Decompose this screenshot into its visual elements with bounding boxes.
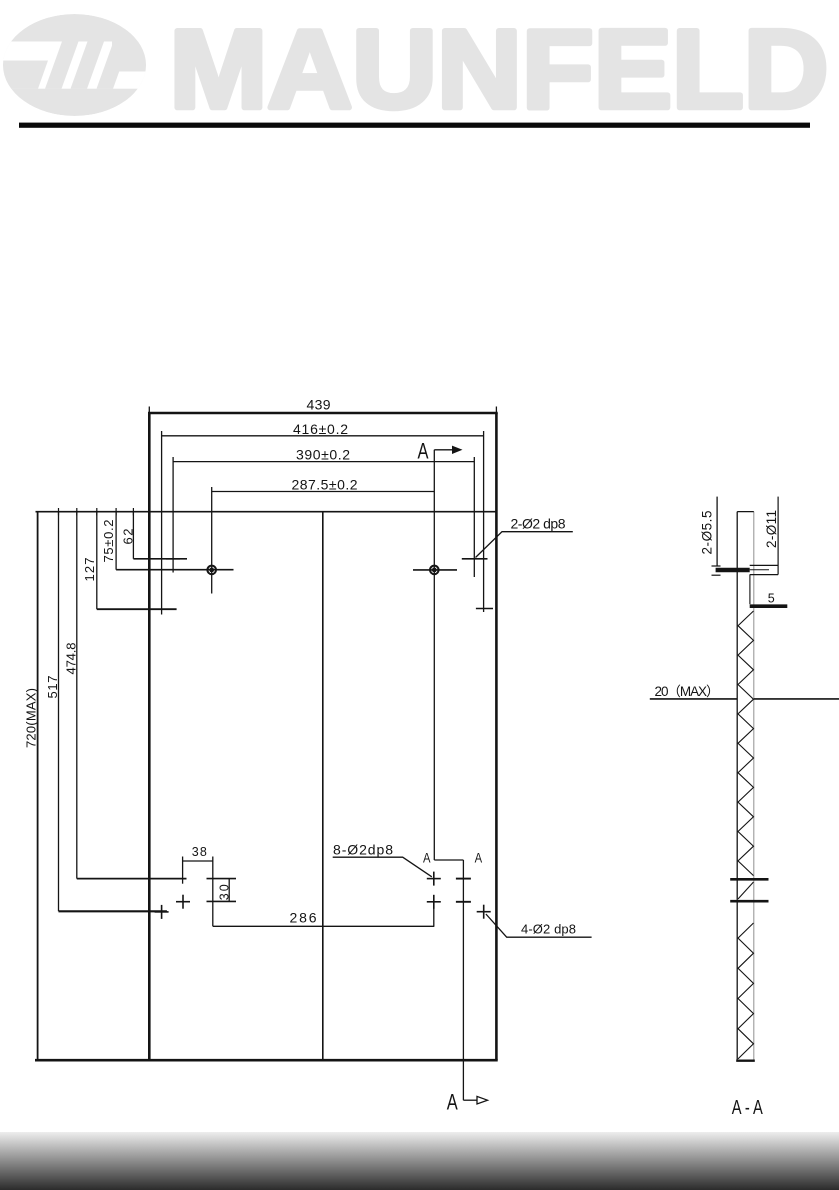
286 right connector [433,902,435,927]
svg-text:439: 439 [307,397,331,413]
screw shaft line [749,575,751,605]
hole cross right row3 [476,608,493,610]
dimension 439 [149,407,496,414]
leader 8-d2dp8 [333,857,432,877]
panel outline [35,413,498,1060]
hole bar row2 [730,900,768,903]
dimension 416 [162,431,484,615]
flange ticks [712,566,721,575]
svg-text:A: A [447,1090,458,1115]
svg-text:A: A [423,849,431,865]
svg-text:2-Ø11: 2-Ø11 [764,510,779,548]
section ticks right column [456,879,471,902]
svg-text:416±0.2: 416±0.2 [293,421,348,437]
dimension 62 line [133,512,187,559]
svg-text:287.5±0.2: 287.5±0.2 [292,476,358,492]
hole circle left [207,566,216,575]
dimension 287.5 [212,487,435,594]
logo ellipse [0,14,152,116]
hatch zigzag lower [738,923,754,1059]
ticks on countertop junctions [59,508,134,515]
strip left edge [736,512,738,1061]
hole bar row1 [730,878,768,881]
svg-text:38: 38 [192,845,207,859]
hole cross (161.6,911.9) [155,905,169,919]
strip top edge [737,511,754,513]
dimension 127 line [97,512,177,610]
hole cross right row1 [462,558,488,560]
dimension 474.8 line [77,512,187,879]
svg-text:474.8: 474.8 [64,643,79,675]
bar dim 5 [750,604,788,608]
svg-text:20（MAX）: 20（MAX） [655,684,720,699]
dimension 390 [173,457,474,577]
hole cross (433.8,901.8) [427,895,441,909]
svg-text:2-Ø5.5: 2-Ø5.5 [700,511,715,555]
leader 2-d11 [777,497,779,575]
svg-text:8-Ø2dp8: 8-Ø2dp8 [333,841,393,857]
front view texts [23,397,576,1115]
hole cross left row1 [166,558,180,560]
section view texts [655,510,780,1119]
svg-text:62: 62 [120,529,135,545]
strip right edge [753,512,755,1061]
section line lower [462,860,464,1100]
dimension 720(MAX) line [37,512,39,1060]
dimension 286 [213,925,434,927]
svg-text:517: 517 [45,676,60,699]
dimension 517 line [59,512,167,912]
leader 4-d2dp8 [486,914,592,937]
dimension 75 line [116,512,233,570]
svg-text:A - A: A - A [732,1097,763,1119]
20(MAX) datum line [650,698,737,700]
svg-text:4-Ø2 dp8: 4-Ø2 dp8 [521,921,576,936]
center line [322,512,324,1060]
leader 2-d5.5 [716,497,718,566]
hatch zigzag upper [738,611,754,876]
svg-text:286: 286 [290,910,317,926]
section line jog [434,859,463,861]
svg-text:MAUNFELD: MAUNFELD [170,8,829,132]
bracket dim 30 [207,879,237,902]
hatch diag middle [738,882,754,899]
section line A top arrow [434,446,462,860]
svg-text:A: A [418,438,429,463]
svg-text:390±0.2: 390±0.2 [296,446,350,462]
svg-text:2-Ø2 dp8: 2-Ø2 dp8 [511,515,566,531]
hole cross (483.7,911.7) [477,905,491,919]
svg-text:5: 5 [768,591,775,605]
svg-text:720(MAX): 720(MAX) [23,688,38,748]
flange bar left [716,568,750,573]
svg-text:A: A [475,849,483,865]
bracket dim 38 [183,857,213,927]
header rule [19,123,810,128]
hole cross (183,901.7) [176,895,190,909]
svg-text:75±0.2: 75±0.2 [101,520,116,563]
footer gradient bar [0,1132,839,1190]
leader 2-d2dp8 [476,532,573,558]
hole circle right [413,566,457,575]
hole cross (433.8,878.6) [427,872,441,886]
nut box right [750,565,778,574]
strip bottom edge [736,1059,755,1061]
countertop line [36,511,497,513]
section arrow bottom [463,1096,487,1104]
svg-text:127: 127 [82,558,97,582]
